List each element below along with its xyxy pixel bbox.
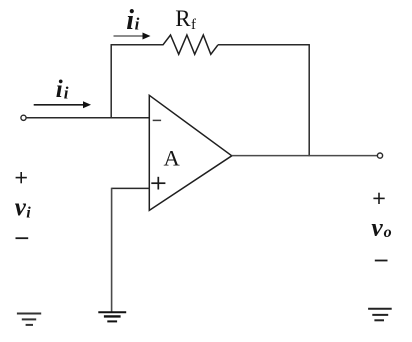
svg-text:i: i [26, 204, 31, 221]
op-amp noninverting input plus [151, 182, 165, 184]
svg-text:f: f [191, 17, 196, 33]
ground left [17, 314, 41, 325]
label plus of vi [16, 177, 27, 179]
arrow input current [34, 104, 85, 106]
svg-text:i: i [64, 83, 69, 102]
svg-text:i: i [56, 76, 63, 103]
wire output [232, 155, 378, 157]
svg-text:o: o [384, 224, 392, 241]
op-amp U1 [149, 95, 232, 210]
wire resistor to right corner [218, 44, 310, 46]
svg-text:A: A [164, 146, 181, 171]
ground right [368, 309, 392, 321]
input terminal [21, 115, 26, 120]
arrow feedback current [114, 35, 145, 37]
ground middle [98, 312, 126, 321]
wire noninverting input vertical to ground [111, 188, 113, 313]
op-amp inverting input minus [153, 119, 161, 121]
label plus of vo [373, 197, 384, 199]
svg-text:i: i [135, 15, 140, 34]
wire feedback left vertical [110, 45, 112, 119]
output terminal [377, 153, 382, 158]
svg-text:v: v [15, 194, 27, 221]
label minus of vo [375, 260, 388, 262]
svg-text:v: v [371, 212, 383, 241]
wire input to inverting input [26, 117, 149, 119]
wire top left to resistor [111, 44, 164, 46]
svg-text:i: i [126, 5, 134, 36]
label minus of vi [16, 237, 29, 239]
wire feedback right vertical [308, 45, 310, 156]
svg-text:R: R [175, 6, 191, 31]
wire noninverting input horizontal [112, 187, 150, 189]
resistor Rf [163, 35, 218, 54]
